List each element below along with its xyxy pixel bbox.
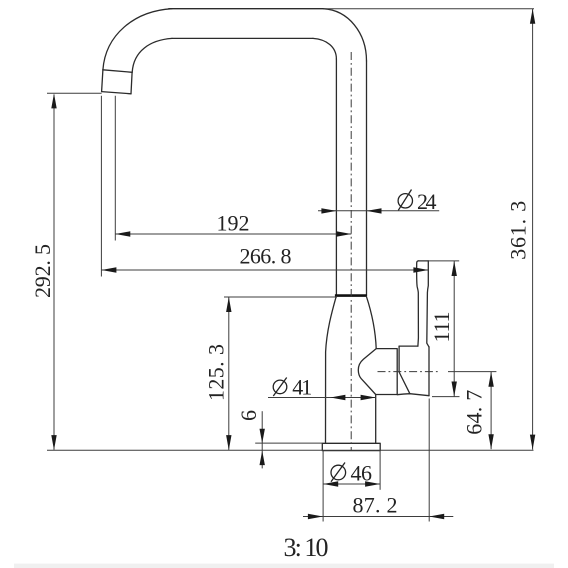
dimension 111 line: [453, 261, 455, 397]
vertical tube left edge: [335, 59, 337, 296]
spout outer right bend: [323, 9, 366, 61]
dimension 192 extension line: [114, 96, 116, 241]
dimension dia46 symbol: [331, 463, 346, 482]
dimension 266.8 arrows: [101, 267, 428, 272]
dimension 361.3 line: [532, 9, 534, 450]
dimension 6 line: [261, 411, 263, 468]
dimension dia24 line: [318, 210, 439, 212]
valve horizontal centerline: [378, 371, 441, 373]
svg-text:6: 6: [236, 410, 261, 421]
spout inner left bend: [132, 38, 172, 72]
spout nozzle bottom edge: [102, 92, 131, 94]
dimension dia41 symbol: [273, 378, 287, 397]
dimension dia46 right extension line: [379, 451, 381, 490]
dimension 64.7 arrows: [488, 372, 493, 450]
dimension 266.8 extension line: [100, 96, 102, 277]
spout outer left bend: [103, 9, 172, 70]
spout nozzle seam: [103, 70, 132, 73]
base plate: [322, 443, 380, 450]
faucet spout top tube outer edge: [169, 8, 323, 10]
dimension 192 line: [115, 233, 351, 235]
svg-text:125. 3: 125. 3: [203, 344, 228, 401]
spout inner right bend: [313, 38, 336, 59]
handle lever right edge: [427, 261, 429, 347]
dimension 266.8 line: [101, 269, 428, 271]
svg-text:64. 7: 64. 7: [462, 390, 487, 435]
handle lever left edge: [417, 261, 419, 346]
dimension 64.7 top extension line: [448, 371, 496, 373]
dimension 292.5 arrows: [51, 93, 56, 450]
handle sleeve bottom edge: [397, 394, 429, 396]
svg-text:46: 46: [351, 460, 373, 485]
svg-text:111: 111: [429, 312, 454, 343]
faucet spout top tube inner edge: [172, 37, 313, 39]
dimension 87.2 right extension line: [428, 399, 430, 522]
body left flare: [326, 296, 337, 443]
body right flare: [366, 296, 376, 348]
dimension 361.3 arrows: [530, 9, 535, 450]
body vertical centerline: [350, 52, 352, 451]
svg-text:87. 2: 87. 2: [353, 493, 398, 518]
dimension dia46 line: [323, 483, 380, 485]
dimension 292.5 top extension line: [47, 92, 102, 94]
dimension 125.3 line: [228, 297, 230, 450]
dimension 111 arrows: [452, 261, 457, 397]
dimension 64.7 line: [490, 372, 492, 450]
dimension 6 arrows: [260, 429, 265, 465]
bottom long extension line: [47, 449, 534, 451]
handle sleeve left edge: [399, 346, 410, 394]
svg-text:266. 8: 266. 8: [240, 244, 292, 269]
svg-text:292. 5: 292. 5: [30, 244, 55, 298]
dimension dia24 arrows: [321, 208, 381, 213]
svg-text:41: 41: [292, 375, 312, 400]
dimension dia41 arrows: [330, 395, 375, 400]
spout nozzle left edge: [102, 70, 103, 92]
valve cartridge cap: [358, 349, 397, 395]
dimension 125.3 extension line: [224, 296, 337, 298]
dimension 292.5 line: [53, 95, 55, 450]
dimension dia46 arrows: [323, 481, 380, 486]
dimension 111 top extension line: [428, 260, 459, 262]
spout nozzle right edge: [131, 72, 132, 94]
bottom gray strip: [14, 564, 554, 568]
dimension dia41 line: [268, 397, 376, 399]
dimension 111 bottom extension line: [432, 396, 460, 398]
handle sleeve right edge: [428, 347, 430, 396]
dimension 6 plate-top extension line: [255, 442, 322, 444]
dimension dia46 left extension line: [322, 451, 324, 522]
handle lever top cap: [419, 260, 429, 262]
svg-text:3: 10: 3: 10: [284, 533, 329, 562]
body right edge below valve: [375, 395, 377, 444]
dimension 192 arrows: [115, 231, 351, 236]
dimension 87.2 arrows: [308, 514, 444, 519]
vertical tube right edge: [366, 61, 368, 296]
dimension 125.3 arrows: [226, 297, 231, 450]
handle sleeve top edge: [399, 345, 418, 347]
svg-text:361. 3: 361. 3: [506, 201, 531, 260]
dimension 87.2 line: [303, 516, 453, 518]
svg-text:24: 24: [417, 189, 437, 214]
tube-body seam thick line: [335, 294, 367, 297]
svg-text:192: 192: [217, 210, 250, 235]
dimension 361.3 top extension line: [323, 8, 534, 10]
dimension dia24 symbol: [398, 190, 412, 211]
